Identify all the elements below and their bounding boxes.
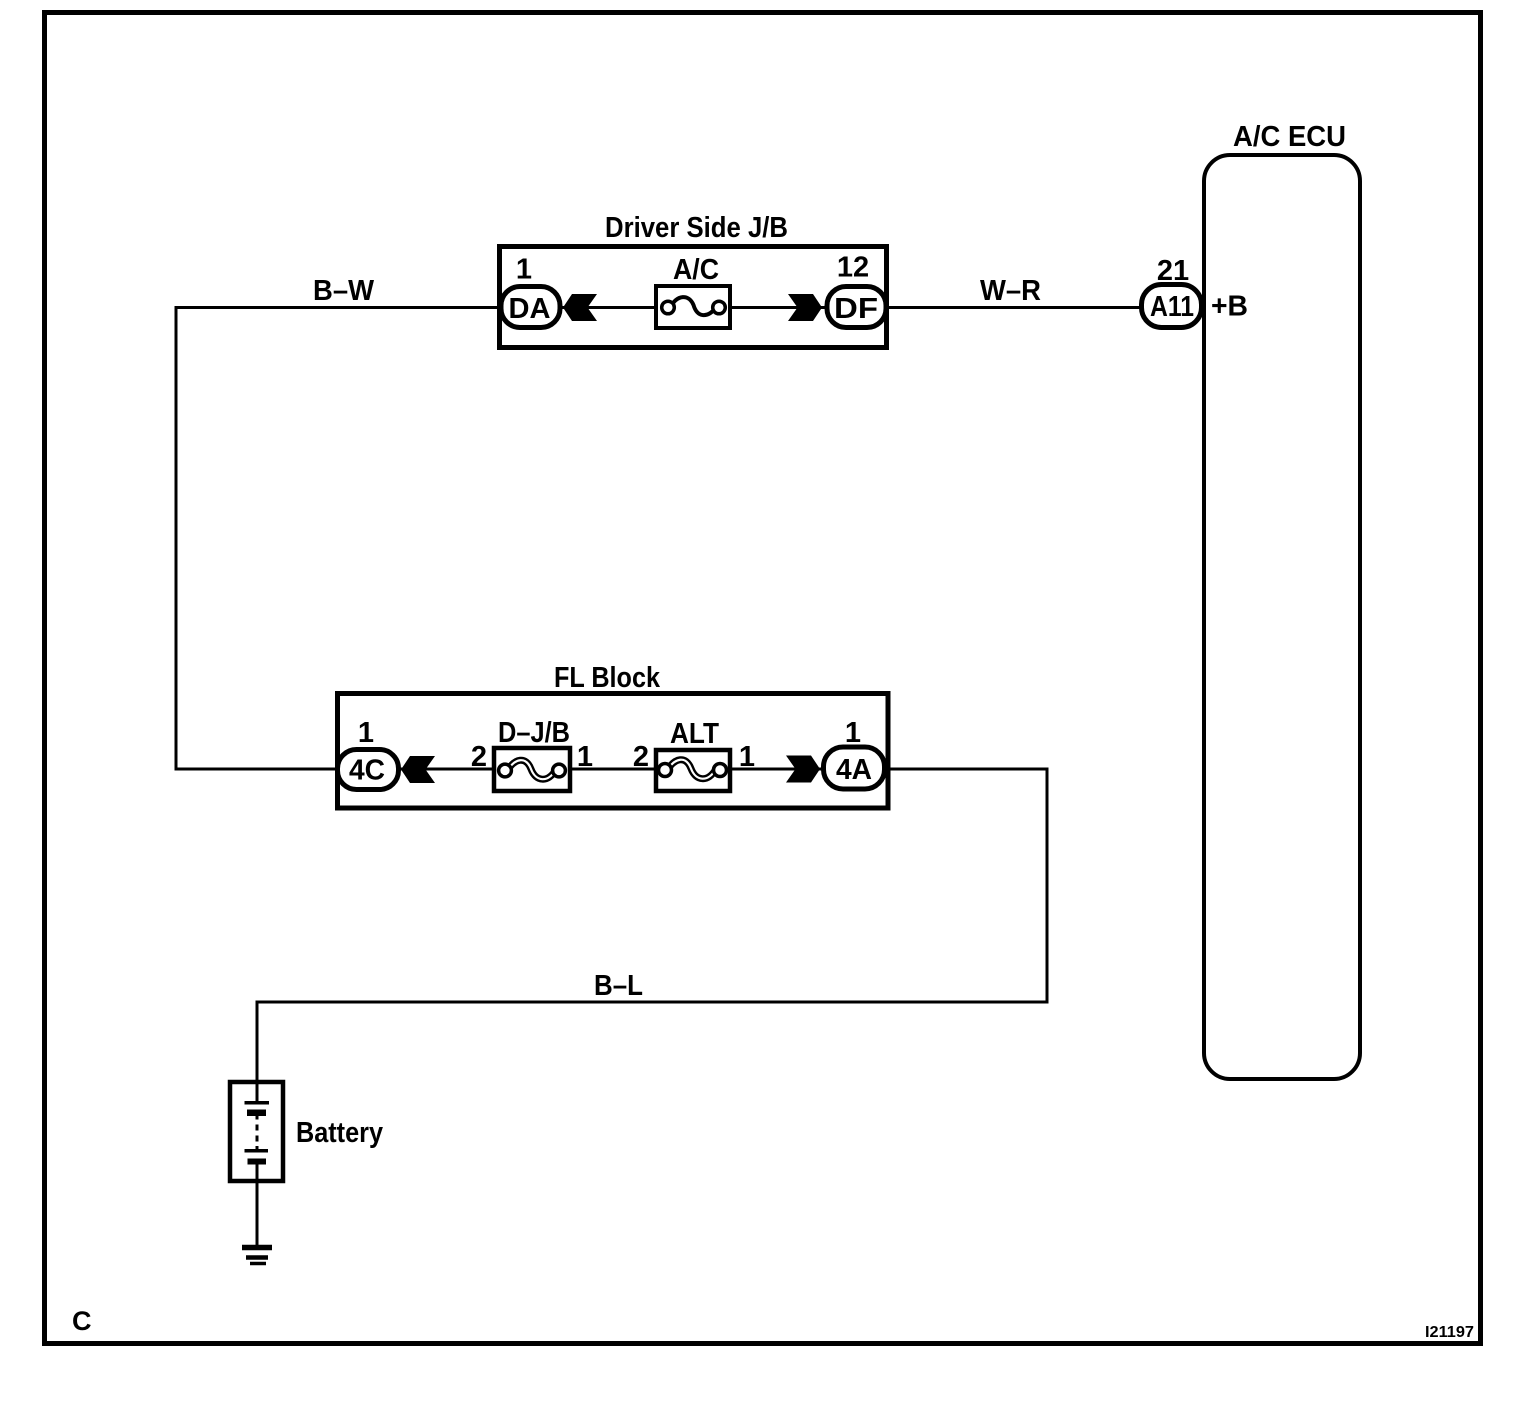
fusible link ALT right terminal [714,764,727,777]
junction block FL Block [338,694,889,809]
arrow into 4C [401,756,435,783]
battery plate long top [245,1101,270,1105]
fuse A/C left terminal [662,301,675,314]
wire B-L horizontal [257,1001,1049,1004]
svg-text:2: 2 [471,741,487,773]
connector 4C oval [338,750,399,790]
wire DA to fuse A/C [559,306,656,309]
connector DF oval [827,287,886,328]
svg-text:1: 1 [577,741,593,773]
svg-text:1: 1 [358,717,374,749]
wire W-R from DF to A11 [886,306,1141,309]
svg-text:FL Block: FL Block [554,662,661,694]
fusible link D-J/B right terminal [553,764,566,777]
wire left riser [175,306,178,771]
battery plate short thick bottom [248,1159,267,1165]
svg-text:DA: DA [509,293,551,325]
wire riser to 4C [175,768,338,771]
svg-text:4C: 4C [349,755,385,787]
fuse A/C element wave [670,297,716,315]
fusible link D-J/B element double wave [507,760,556,779]
wire drop to battery [256,1001,259,1083]
svg-text:I21197: I21197 [1425,1324,1474,1341]
svg-text:1: 1 [739,741,755,773]
fusible link D-J/B left terminal [499,764,512,777]
junction block Driver Side J/B [500,247,887,348]
svg-text:1: 1 [845,717,861,749]
ECU A/C ECU box [1204,155,1360,1079]
battery box [230,1082,283,1181]
svg-text:2: 2 [633,741,649,773]
fuse A/C right terminal [713,301,726,314]
svg-text:4A: 4A [836,754,872,786]
svg-text:+B: +B [1211,291,1248,323]
svg-text:B–L: B–L [594,970,643,1002]
battery plate short thick top [247,1110,266,1117]
svg-text:W–R: W–R [980,275,1041,307]
svg-text:A11: A11 [1150,291,1194,323]
svg-text:A/C ECU: A/C ECU [1233,121,1346,153]
battery dashed center [256,1125,259,1131]
svg-text:C: C [72,1306,92,1336]
wire right drop [1046,768,1049,1004]
fusible link ALT box [656,750,730,791]
svg-text:A/C: A/C [673,254,719,286]
arrow into DA [563,294,597,321]
svg-text:Battery: Battery [296,1117,383,1149]
svg-text:DF: DF [834,293,878,325]
svg-text:12: 12 [837,252,869,284]
fuse A/C box [656,286,730,328]
svg-text:B–W: B–W [313,275,375,307]
wire 4C to D-J/B link [398,768,496,771]
svg-text:ALT: ALT [670,718,719,750]
arrow into DF [788,294,822,321]
wire B-W horizontal from left riser to DA [176,306,500,309]
connector 4A oval [824,747,885,789]
svg-text:1: 1 [516,254,532,286]
wire D-J/B link to ALT link [570,768,656,771]
wire ALT link to 4A [730,768,823,771]
battery plate long bottom [256,1146,259,1150]
arrow into 4A [786,756,820,783]
wire fuse A/C to DF [730,306,827,309]
connector A11 oval [1142,285,1202,328]
fusible link ALT element double wave [667,760,716,779]
wire 4A to corner [885,768,1047,771]
svg-text:D–J/B: D–J/B [498,717,570,749]
svg-text:Driver Side J/B: Driver Side J/B [605,212,788,244]
fusible link D-J/B box [494,748,570,791]
connector DA oval [501,287,560,328]
battery top stem [256,1082,259,1102]
battery bottom stem to ground [256,1164,259,1245]
fusible link ALT left terminal [659,764,672,777]
ground symbol [242,1245,272,1251]
